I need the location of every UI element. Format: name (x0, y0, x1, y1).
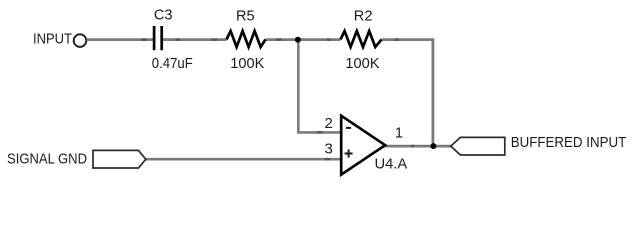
wire input to C3 (87, 38, 153, 41)
svg-text:100K: 100K (230, 56, 264, 72)
junction node dot at R5/R2/pin2 (295, 37, 301, 43)
svg-text:U4.A: U4.A (375, 157, 408, 173)
svg-text:SIGNAL GND: SIGNAL GND (7, 151, 87, 167)
resistor R2 (341, 31, 382, 47)
pin stub mark R5 left (211, 38, 217, 41)
resistor R5 (227, 31, 266, 47)
svg-text:100K: 100K (345, 56, 379, 72)
pin stub mark C3 right (176, 38, 181, 41)
op-amp plus symbol (345, 153, 353, 155)
svg-text:BUFFERED INPUT: BUFFERED INPUT (511, 135, 627, 151)
svg-text:2: 2 (324, 115, 332, 132)
pin stub mark R2 left (327, 38, 331, 41)
svg-text:R2: R2 (354, 8, 373, 24)
op-amp U4.A triangle (341, 116, 385, 175)
pin stub mark U4 pin3 (325, 158, 331, 160)
svg-text:0.47uF: 0.47uF (152, 56, 193, 72)
capacitor C3 plates (153, 26, 156, 50)
wire signal gnd to pin 3 (146, 158, 341, 161)
svg-text:C3: C3 (154, 8, 173, 24)
op-amp minus symbol (346, 127, 351, 129)
port terminal circle (74, 34, 87, 47)
wire C3 to R5 (163, 38, 227, 41)
svg-text:3: 3 (324, 141, 332, 158)
wire opamp output to tag (385, 145, 451, 148)
svg-text:INPUT: INPUT (33, 31, 72, 47)
wire R2 right corner down to output (382, 40, 433, 147)
pin stub mark U4 pin2 (317, 131, 323, 133)
svg-text:1: 1 (395, 125, 403, 142)
wire junction down to pin 2 (298, 40, 340, 133)
svg-text:R5: R5 (236, 8, 255, 24)
junction node dot at output/feedback (430, 143, 436, 149)
pin stub mark U4 pin1 (411, 145, 415, 148)
BUFFERED INPUT tag polygon (451, 137, 505, 155)
wire R5 to R2 through junction (266, 38, 341, 41)
pin stub mark C3 left (141, 38, 146, 41)
pin stub mark R2 right (395, 38, 400, 41)
SIGNAL GND tag polygon (93, 150, 146, 168)
pin stub mark R5 right (276, 38, 282, 41)
